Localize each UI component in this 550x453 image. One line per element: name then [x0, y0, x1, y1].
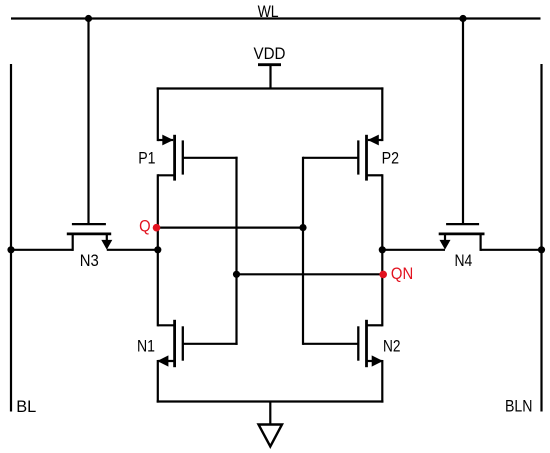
transistor N2 (NMOS) — [358, 320, 383, 367]
junction dot BL / N3 wire — [7, 246, 14, 253]
svg-text:N1: N1 — [137, 337, 155, 356]
svg-text:BL: BL — [16, 397, 36, 416]
wire ground rail — [157, 400, 384, 402]
wire P2 source column — [381, 87, 383, 141]
wire WL word line — [11, 17, 541, 19]
wire N2 gate lead — [303, 343, 358, 345]
wire P2 gate lead — [303, 157, 358, 159]
wire BL to N3 source — [11, 249, 73, 251]
wire Q cross-coupling — [157, 227, 304, 229]
wire QN column — [381, 174, 383, 326]
junction dot WL / N4 gate — [459, 15, 466, 22]
wire Q column — [157, 174, 159, 326]
junction dot QN wire / P1-N1 gate column — [233, 271, 240, 278]
node QN red dot — [379, 271, 387, 279]
wire BLN bit line — [540, 64, 542, 412]
junction dot QN column / N4 wire — [379, 246, 386, 253]
wire N1 gate lead — [183, 343, 238, 345]
junction dot BLN / N4 wire — [538, 246, 545, 253]
wire QN node to N4 source — [381, 249, 445, 251]
wire N3 drain to Q node — [107, 249, 159, 251]
wire N3 gate stub — [87, 19, 89, 225]
wire BL bit line — [10, 64, 12, 412]
svg-text:P2: P2 — [382, 148, 399, 167]
wire QN cross-coupling — [235, 273, 383, 275]
node Q red dot — [153, 224, 161, 232]
transistor N1 (NMOS) — [157, 320, 183, 367]
wire N4 drain to BLN — [481, 249, 542, 251]
svg-text:P1: P1 — [138, 148, 155, 167]
wire ground stub — [269, 402, 271, 425]
wire N4 gate stub — [462, 19, 464, 225]
wire VDD rail — [157, 87, 384, 89]
svg-text:Q: Q — [139, 217, 151, 236]
svg-text:N2: N2 — [383, 337, 401, 356]
wire P2/N2 gate column — [302, 157, 304, 345]
junction dot Q wire / P2-N2 gate column — [299, 224, 306, 231]
wire P1/N1 gate column — [235, 157, 237, 345]
ground symbol — [259, 425, 283, 447]
junction dot WL / N3 gate — [85, 15, 92, 22]
transistor P2 (PMOS) — [358, 135, 382, 181]
transistor P1 (PMOS) — [158, 135, 183, 181]
svg-text:N3: N3 — [80, 251, 99, 270]
wire N1 source column — [157, 360, 159, 403]
transistor N3 (NMOS access) — [67, 224, 113, 251]
wire N2 source column — [381, 360, 383, 403]
svg-text:BLN: BLN — [505, 397, 533, 416]
transistor N4 (NMOS access) — [439, 224, 485, 251]
power VDD symbol — [258, 65, 281, 89]
svg-text:QN: QN — [391, 264, 413, 283]
wire P1 gate lead — [183, 157, 238, 159]
wire P1 source column — [157, 87, 159, 141]
svg-text:N4: N4 — [455, 251, 473, 270]
svg-text:VDD: VDD — [254, 44, 286, 63]
junction dot Q column / N3 wire — [154, 246, 161, 253]
